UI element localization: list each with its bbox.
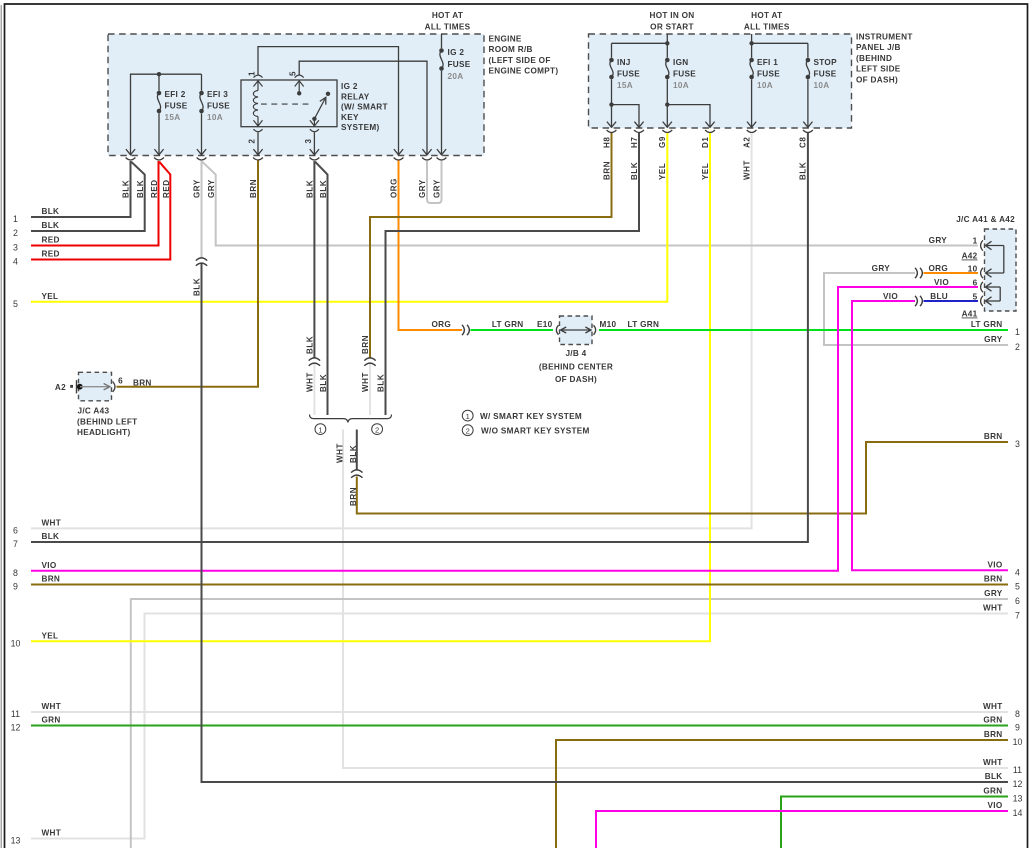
- svg-text:HOT AT: HOT AT: [751, 11, 782, 20]
- svg-text:WHT: WHT: [305, 372, 314, 392]
- svg-text:FUSE: FUSE: [757, 70, 780, 79]
- svg-text:VIO: VIO: [934, 278, 949, 287]
- svg-text:5: 5: [289, 71, 298, 76]
- svg-text:LEFT SIDE: LEFT SIDE: [856, 65, 901, 74]
- svg-text:2: 2: [375, 425, 379, 434]
- svg-text:LT GRN: LT GRN: [971, 320, 1003, 329]
- svg-text:FUSE: FUSE: [673, 70, 696, 79]
- wire GRN row12/row9 across: [31, 725, 1008, 727]
- svg-text:12: 12: [1013, 779, 1023, 789]
- splice ORG to LT GRN: [462, 325, 469, 335]
- svg-text:VIO: VIO: [987, 561, 1002, 570]
- svg-text:RELAY: RELAY: [341, 92, 370, 101]
- svg-text:GRN: GRN: [42, 716, 61, 725]
- label J/B 4 (BEHIND CENTER OF DASH): [539, 349, 613, 384]
- svg-text:ENGINE COMPT): ENGINE COMPT): [489, 67, 559, 76]
- svg-text:WHT: WHT: [42, 829, 62, 838]
- wire VIO row4 right to splice BLU: [852, 301, 1008, 570]
- note 1 W/ SMART KEY SYSTEM: [462, 410, 582, 421]
- wire BLU splice to JC pin5: [924, 300, 979, 302]
- junction dot INJ out: [609, 102, 613, 106]
- svg-text:8: 8: [13, 568, 18, 578]
- svg-text:1: 1: [248, 71, 257, 76]
- svg-text:GRY: GRY: [929, 236, 948, 245]
- svg-text:11: 11: [11, 709, 20, 719]
- svg-text:C8: C8: [799, 137, 808, 148]
- wire relay pin1 to ORG output: [258, 47, 399, 155]
- wire BRN row9/row5 across: [31, 584, 1008, 586]
- svg-text:7: 7: [13, 539, 18, 549]
- label IGN FUSE 10A: [673, 58, 696, 90]
- svg-text:9: 9: [1015, 723, 1020, 733]
- wire GRY splice to JC pin10 path: [824, 273, 1008, 345]
- junction dot EFI1 top: [749, 41, 753, 45]
- J/C A43 internal pin A2: [70, 380, 115, 393]
- inline connector pair2 BRN/WHT: [364, 358, 375, 366]
- label STOP FUSE 10A: [814, 58, 838, 90]
- svg-text:GRY: GRY: [193, 179, 202, 198]
- IP feed wire HOT AT ALL TIMES: [752, 34, 808, 43]
- svg-text:BLK: BLK: [42, 207, 60, 216]
- splice labels GRY VIO: [872, 264, 899, 301]
- svg-text:OR START: OR START: [650, 23, 694, 32]
- svg-text:LT GRN: LT GRN: [628, 320, 660, 329]
- svg-text:HEADLIGHT): HEADLIGHT): [77, 428, 130, 437]
- svg-text:BRN: BRN: [361, 335, 370, 354]
- svg-text:GRN: GRN: [983, 787, 1002, 796]
- wire BLK row1: [31, 161, 131, 217]
- label IG 2 FUSE 20A: [448, 48, 471, 81]
- wire WHT pair1 lower: [313, 364, 315, 416]
- wire LT GRN M10 to right edge row1: [599, 329, 1008, 331]
- svg-text:20A: 20A: [448, 72, 464, 81]
- inline connector GRY/BLK: [196, 258, 207, 266]
- svg-text:W/O SMART KEY SYSTEM: W/O SMART KEY SYSTEM: [481, 427, 590, 436]
- svg-text:LT GRN: LT GRN: [492, 320, 524, 329]
- svg-text:5: 5: [13, 299, 18, 309]
- svg-text:(W/ SMART: (W/ SMART: [341, 103, 388, 112]
- wire INJ out branch to H7: [612, 105, 640, 127]
- wire GRY row6 right: [131, 599, 1008, 848]
- svg-text:ORG: ORG: [431, 320, 451, 329]
- wire BLK pin3 diagonal to pair1 right: [315, 162, 327, 415]
- wire YEL row5 to G9: [31, 133, 667, 302]
- wire relay pin2 down: [257, 132, 259, 155]
- svg-text:GRN: GRN: [983, 716, 1002, 725]
- fuse EFI 1 10A: [749, 43, 754, 127]
- label J/C A43 (BEHIND LEFT HEADLIGHT): [77, 407, 137, 438]
- svg-text:J/B 4: J/B 4: [565, 349, 586, 358]
- wire WHT brace output to row11 right: [343, 430, 1008, 769]
- svg-text:10: 10: [1013, 737, 1023, 747]
- label HOT IN ON OR START: [649, 11, 694, 32]
- svg-text:GRY: GRY: [872, 264, 891, 273]
- svg-text:EFI 1: EFI 1: [757, 58, 778, 67]
- svg-text:1: 1: [973, 237, 978, 246]
- svg-text:H8: H8: [602, 137, 611, 148]
- svg-text:YEL: YEL: [658, 163, 667, 180]
- relay switch blade and pin 3: [310, 92, 330, 132]
- wire WHT pair2 lower: [369, 364, 371, 416]
- svg-text:9: 9: [13, 582, 18, 592]
- svg-text:WHT: WHT: [42, 519, 62, 528]
- svg-text:BRN: BRN: [602, 161, 611, 180]
- wire BLK engine GRY-connector to row12 right: [202, 264, 1009, 783]
- svg-text:5: 5: [1015, 582, 1020, 592]
- wire BRN H8 to pair2: [370, 133, 612, 358]
- wire LT GRN splice to E10: [471, 329, 554, 331]
- label INJ FUSE 15A: [617, 58, 640, 90]
- svg-text:A41: A41: [962, 310, 978, 319]
- inline connector BLK/BRN center: [351, 470, 362, 478]
- wire GRN row13 right: [781, 797, 1008, 848]
- svg-text:WHT: WHT: [42, 702, 62, 711]
- fuse IGN 10A: [665, 43, 670, 127]
- svg-text:BLK: BLK: [193, 278, 202, 296]
- wire BLK brace output to BRN connector: [356, 430, 358, 470]
- svg-text:EFI 3: EFI 3: [207, 90, 228, 99]
- svg-text:PANEL J/B: PANEL J/B: [856, 43, 901, 52]
- svg-text:BLK: BLK: [319, 374, 328, 392]
- JC pin 5: [981, 296, 1001, 306]
- IP wire color labels: [602, 160, 807, 180]
- svg-text:OF DASH): OF DASH): [555, 375, 597, 384]
- fuse EFI 3 10A: [199, 74, 204, 155]
- svg-text:GRY: GRY: [207, 179, 216, 198]
- svg-text:6: 6: [973, 279, 978, 288]
- svg-text:BLK: BLK: [349, 445, 358, 463]
- splice VIO to BLU: [915, 296, 922, 306]
- fuse INJ 15A: [609, 43, 614, 127]
- J/C A43 box: [79, 372, 112, 401]
- svg-text:STOP: STOP: [814, 58, 838, 67]
- svg-text:BRN: BRN: [984, 575, 1003, 584]
- svg-text:15A: 15A: [617, 81, 633, 90]
- svg-text:HOT IN ON: HOT IN ON: [649, 11, 694, 20]
- junction dot IGN out: [665, 102, 669, 106]
- label EFI 3 FUSE 10A: [207, 90, 230, 122]
- wire GRY pair under IG2 fuse: [427, 161, 442, 203]
- J/B 4 internal pass-through: [556, 325, 595, 335]
- wire relay pin5 to GRY output: [299, 61, 427, 155]
- wire ORG splice to JC pin10: [924, 272, 979, 274]
- inline connector pair1 BLK/WHT: [309, 358, 320, 366]
- svg-text:BLK: BLK: [42, 221, 60, 230]
- engine output wire color labels: [122, 178, 442, 198]
- relay dashed link: [261, 103, 311, 105]
- J/B 4 box: [560, 316, 593, 345]
- svg-text:D1: D1: [701, 137, 710, 148]
- svg-text:FUSE: FUSE: [814, 70, 837, 79]
- wire YEL row10 to D1: [31, 133, 710, 641]
- svg-text:2: 2: [466, 426, 470, 435]
- wire BLK row2: [31, 162, 145, 231]
- JC bracket pins 1-10: [1003, 246, 1005, 274]
- svg-text:VIO: VIO: [987, 801, 1002, 810]
- label HOT AT ALL TIMES (engine room): [425, 11, 471, 32]
- svg-text:EFI 2: EFI 2: [165, 90, 186, 99]
- svg-text:6: 6: [118, 377, 123, 386]
- svg-text:BLK: BLK: [122, 180, 131, 198]
- svg-text:FUSE: FUSE: [617, 70, 640, 79]
- wire relay pin3 down: [313, 132, 315, 155]
- labels center WHT BLK BRN: [336, 443, 359, 506]
- svg-text:BRN: BRN: [984, 730, 1003, 739]
- svg-text:ORG: ORG: [928, 264, 948, 273]
- svg-text:BLK: BLK: [306, 180, 315, 198]
- svg-text:10A: 10A: [673, 81, 689, 90]
- brace selector: [310, 415, 392, 423]
- svg-text:FUSE: FUSE: [207, 102, 230, 111]
- JC pin 1: [981, 240, 1004, 250]
- svg-text:4: 4: [13, 257, 18, 267]
- svg-text:BRN: BRN: [42, 575, 61, 584]
- svg-text:FUSE: FUSE: [165, 102, 188, 111]
- svg-text:BRN: BRN: [349, 487, 358, 506]
- fuse IG 2 20A: [439, 34, 444, 155]
- svg-text:5: 5: [973, 293, 978, 302]
- svg-text:(BEHIND: (BEHIND: [856, 54, 892, 63]
- wire ORG relay output to splice: [399, 161, 463, 331]
- svg-text:3: 3: [304, 138, 313, 143]
- wire WHT row13 to row7 right: [31, 614, 1008, 839]
- svg-text:BRN: BRN: [133, 379, 152, 388]
- svg-text:YEL: YEL: [42, 292, 59, 301]
- svg-text:(LEFT SIDE OF: (LEFT SIDE OF: [489, 56, 551, 65]
- wire BLK H7 to pair2 right: [386, 133, 640, 415]
- label INSTRUMENT PANEL J/B: [856, 33, 913, 85]
- circled 1 under pair1: [315, 424, 326, 435]
- relay IG 2 box: [241, 80, 337, 127]
- svg-text:4: 4: [1015, 567, 1020, 577]
- svg-text:ALL TIMES: ALL TIMES: [744, 23, 790, 32]
- svg-text:WHT: WHT: [983, 604, 1003, 613]
- svg-text:G9: G9: [658, 136, 667, 148]
- relay pin numbers: [248, 71, 314, 144]
- svg-text:VIO: VIO: [42, 561, 57, 570]
- svg-text:13: 13: [1013, 794, 1023, 804]
- wire IGN out branch to D1: [667, 105, 710, 127]
- svg-text:J/C A43: J/C A43: [78, 407, 110, 416]
- svg-text:2: 2: [248, 138, 257, 143]
- svg-text:M10: M10: [600, 320, 617, 329]
- wire VIO row8 to JC pin6: [31, 287, 978, 571]
- svg-text:FUSE: FUSE: [448, 60, 471, 69]
- svg-text:A2: A2: [742, 137, 751, 148]
- svg-text:11: 11: [1013, 765, 1022, 775]
- wire BRN row10 right: [556, 740, 1008, 848]
- svg-text:GRY: GRY: [984, 335, 1003, 344]
- note 2 W/O SMART KEY SYSTEM: [462, 425, 589, 436]
- wire BLK row7 to C8: [31, 133, 808, 542]
- fuse STOP 10A: [806, 43, 811, 127]
- J/C A41 A42 box: [985, 229, 1017, 311]
- instrument panel J/B box: [589, 34, 852, 128]
- left edge row numbers and labels: [11, 207, 61, 846]
- label pin 6 BRN: [118, 377, 152, 388]
- wire RED row3: [31, 161, 159, 246]
- svg-text:3: 3: [1015, 439, 1020, 449]
- svg-text:BLK: BLK: [630, 162, 639, 180]
- JC bracket pins 6-5: [999, 287, 1001, 301]
- svg-text:BLK: BLK: [319, 180, 328, 198]
- svg-text:W/ SMART KEY SYSTEM: W/ SMART KEY SYSTEM: [480, 412, 582, 421]
- svg-text:WHT: WHT: [983, 702, 1003, 711]
- wire BRN relay pin2 to J/C A43: [117, 161, 259, 387]
- svg-text:ALL TIMES: ALL TIMES: [425, 23, 471, 32]
- JC pin labels: [928, 236, 977, 319]
- IP connector pin labels H8 H7 G9 D1 A2 C8: [602, 136, 807, 148]
- svg-text:1: 1: [1015, 327, 1020, 337]
- svg-text:GRY: GRY: [418, 179, 427, 198]
- svg-text:(BEHIND CENTER: (BEHIND CENTER: [539, 363, 613, 372]
- IP box edge connectors: [607, 122, 813, 133]
- wire GRY diagonal to pin1 row: [202, 162, 978, 246]
- labels around J/B 4: [431, 320, 659, 329]
- splice GRY to ORG: [915, 268, 922, 278]
- svg-text:10: 10: [968, 265, 978, 274]
- svg-text:15A: 15A: [165, 113, 181, 122]
- label EFI 2 FUSE 15A: [165, 90, 188, 122]
- svg-text:12: 12: [11, 723, 21, 733]
- wire WHT row11/row8 across: [31, 711, 1008, 713]
- svg-text:1: 1: [466, 412, 470, 421]
- IP feed wire HOT IN ON: [612, 34, 668, 43]
- svg-text:WHT: WHT: [742, 160, 751, 180]
- svg-text:3: 3: [13, 243, 18, 253]
- svg-text:10A: 10A: [207, 113, 223, 122]
- svg-text:HOT AT: HOT AT: [432, 11, 463, 20]
- svg-text:7: 7: [1015, 611, 1020, 621]
- svg-text:IG 2: IG 2: [448, 48, 465, 57]
- svg-text:10: 10: [11, 639, 21, 649]
- fuse EFI 2 15A: [157, 74, 162, 155]
- svg-text:10A: 10A: [814, 81, 830, 90]
- relay pin 5 contact: [295, 75, 304, 95]
- svg-text:BLK: BLK: [799, 162, 808, 180]
- svg-text:E10: E10: [537, 320, 553, 329]
- svg-text:INJ: INJ: [617, 58, 631, 67]
- svg-text:A42: A42: [962, 252, 978, 261]
- svg-text:1: 1: [13, 214, 18, 224]
- svg-text:2: 2: [13, 228, 18, 238]
- label ENGINE ROOM R/B: [489, 35, 559, 76]
- svg-text:WHT: WHT: [361, 372, 370, 392]
- JC pin 10: [981, 268, 1004, 278]
- svg-text:INSTRUMENT: INSTRUMENT: [856, 33, 913, 42]
- svg-text:YEL: YEL: [701, 163, 710, 180]
- right edge row numbers and labels: [971, 320, 1023, 818]
- svg-text:(BEHIND LEFT: (BEHIND LEFT: [77, 417, 137, 426]
- svg-text:A2: A2: [55, 383, 66, 392]
- svg-text:RED: RED: [42, 236, 60, 245]
- svg-text:ROOM R/B: ROOM R/B: [489, 45, 533, 54]
- wire BRN center to row3 right: [357, 442, 1008, 514]
- svg-text:1: 1: [318, 425, 322, 434]
- svg-text:13: 13: [11, 836, 21, 846]
- wire VIO row14 right: [596, 811, 1008, 848]
- svg-text:RED: RED: [42, 250, 60, 259]
- svg-text:BLK: BLK: [305, 336, 314, 354]
- svg-text:8: 8: [1015, 709, 1020, 719]
- svg-text:BLK: BLK: [42, 532, 60, 541]
- JC pin 6: [981, 282, 1001, 292]
- junction dot EFI2 top: [157, 72, 161, 76]
- circled 2 under pair2: [372, 424, 383, 435]
- wire bus to EFI fuses: [131, 74, 202, 155]
- svg-text:IGN: IGN: [673, 58, 688, 67]
- svg-text:OF DASH): OF DASH): [856, 75, 898, 84]
- label HOT AT ALL TIMES (instrument panel): [744, 11, 790, 32]
- svg-text:KEY: KEY: [341, 113, 359, 122]
- svg-text:ORG: ORG: [390, 178, 399, 198]
- svg-text:6: 6: [1015, 596, 1020, 606]
- label IG 2 RELAY: [341, 82, 388, 132]
- svg-text:BLU: BLU: [930, 292, 948, 301]
- wire WHT row6 left to A2: [31, 133, 752, 528]
- wire GRY engine to JC pin1: [201, 161, 203, 258]
- svg-text:GRY: GRY: [984, 589, 1003, 598]
- engine room box edge connectors: [126, 149, 447, 160]
- svg-text:BLK: BLK: [377, 374, 386, 392]
- svg-text:J/C A41 & A42: J/C A41 & A42: [956, 215, 1015, 224]
- svg-text:WHT: WHT: [336, 443, 345, 463]
- svg-text:GRY: GRY: [433, 179, 442, 198]
- svg-text:H7: H7: [630, 137, 639, 148]
- relay coil (pin 1 to pin 2): [253, 75, 262, 132]
- wire BLK relay pin3 to pair1: [313, 161, 315, 358]
- svg-text:ENGINE: ENGINE: [489, 35, 522, 44]
- svg-text:10A: 10A: [757, 81, 773, 90]
- svg-text:14: 14: [1013, 808, 1023, 818]
- svg-text:2: 2: [1015, 342, 1020, 352]
- label EFI 1 FUSE 10A: [757, 58, 780, 90]
- svg-text:VIO: VIO: [883, 292, 898, 301]
- svg-text:6: 6: [13, 526, 18, 536]
- wire RED row4: [31, 162, 170, 260]
- pair2 labels: [361, 335, 386, 392]
- engine room R/B box: [108, 34, 484, 156]
- svg-text:BLK: BLK: [136, 180, 145, 198]
- svg-text:SYSTEM): SYSTEM): [341, 123, 380, 132]
- svg-text:BRN: BRN: [249, 179, 258, 198]
- svg-text:BRN: BRN: [984, 432, 1003, 441]
- svg-text:YEL: YEL: [42, 632, 59, 641]
- svg-text:IG 2: IG 2: [341, 82, 358, 91]
- pair1 labels: [305, 336, 327, 392]
- svg-text:BLK: BLK: [985, 772, 1003, 781]
- junction dot IGN top: [665, 41, 669, 45]
- svg-text:WHT: WHT: [983, 758, 1003, 767]
